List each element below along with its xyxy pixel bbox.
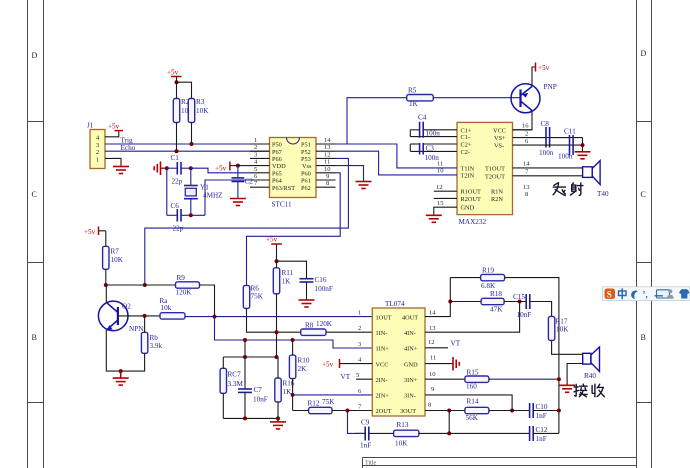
- junction Ra R9 node: [213, 315, 217, 319]
- power +5v at R11: [266, 236, 282, 268]
- svg-text:14: 14: [429, 310, 436, 317]
- wire pin14 stub up: [425, 278, 450, 317]
- resistor R5: [407, 87, 434, 109]
- wire R16 stems: [277, 357, 279, 418]
- svg-text:+5v: +5v: [84, 228, 96, 236]
- wire C12 right to bus: [533, 432, 559, 434]
- svg-text:56K: 56K: [466, 414, 479, 422]
- wire R8 to TL074 pin2: [326, 331, 372, 333]
- svg-text:13: 13: [523, 184, 530, 191]
- wire +5v down to R7: [105, 231, 107, 247]
- junction R16 bottom: [276, 416, 280, 420]
- resistor R3: [188, 98, 209, 123]
- svg-text:10: 10: [429, 371, 436, 378]
- wire pin12 stub: [425, 347, 448, 349]
- wire pin5 stub: [356, 378, 372, 380]
- svg-text:R18: R18: [490, 290, 502, 298]
- svg-text:VT: VT: [341, 373, 351, 381]
- power +5v at C2/VDD: [215, 162, 238, 173]
- svg-text:C9: C9: [361, 419, 370, 427]
- capacitor C6: [167, 202, 205, 233]
- resistor R15: [465, 369, 489, 391]
- svg-text:2: 2: [358, 325, 361, 332]
- svg-text:1: 1: [254, 137, 257, 144]
- wire Q1 emitter to +5v: [532, 67, 536, 87]
- wire T1OUT to speaker: [513, 167, 583, 169]
- svg-text:Q2: Q2: [122, 303, 131, 311]
- wire R7 bottom to collector node: [105, 269, 107, 285]
- resistor R14: [465, 398, 489, 423]
- junction tap rail: [243, 355, 247, 359]
- svg-text:C10: C10: [536, 403, 548, 411]
- junction C7 bottom: [243, 416, 247, 420]
- junction P53 net on R9 line: [143, 283, 147, 287]
- junction pin7 node: [346, 409, 350, 413]
- ground at pin11 (sideways): [453, 357, 459, 371]
- wire Trig net: [105, 143, 270, 145]
- wire R6 bottom to R8 line: [247, 308, 301, 332]
- svg-text:1K: 1K: [409, 100, 419, 108]
- R1OUT stub: [434, 190, 457, 192]
- junction R11 on R8 line: [275, 330, 279, 334]
- frame border right: [637, 0, 652, 468]
- power +5v at J1: [108, 123, 123, 131]
- ground at VS node: [575, 152, 591, 159]
- svg-text:+5v: +5v: [538, 64, 550, 72]
- wire RC7 top rail: [223, 356, 276, 358]
- STC11 left pin stubs: [250, 144, 270, 187]
- svg-text:10: 10: [324, 166, 331, 173]
- STC11 right pin numbers: [324, 137, 331, 187]
- junction emitter ground: [119, 369, 123, 373]
- svg-text:RC7: RC7: [228, 371, 242, 379]
- wire R9 right to Ra node: [200, 285, 215, 317]
- capacitor C1: [167, 154, 191, 186]
- wire pin6 line: [293, 394, 373, 396]
- junction R10 pin6: [291, 393, 295, 397]
- resistor R6: [243, 285, 263, 309]
- wire pin7 node down to C9 line: [348, 411, 366, 434]
- svg-text:R2N: R2N: [491, 196, 503, 203]
- svg-text:R15: R15: [467, 369, 479, 377]
- svg-text:P53: P53: [301, 156, 311, 163]
- svg-text:10k: 10k: [161, 304, 172, 312]
- icon keyboard: [655, 290, 670, 298]
- wire R12 right to pin7: [332, 410, 372, 412]
- wire R5 to Q1 base: [433, 97, 520, 99]
- svg-text:2IN+: 2IN+: [376, 393, 390, 400]
- svg-text:2: 2: [254, 144, 257, 151]
- text 接收: [574, 384, 604, 397]
- resistor R7: [103, 246, 124, 269]
- svg-text:+5v: +5v: [322, 361, 334, 369]
- wire pin10 to R15: [425, 378, 465, 380]
- op-amp U3 TL074: [372, 300, 425, 416]
- svg-text:P51: P51: [301, 142, 311, 149]
- wire C1-C6 left vertical: [166, 168, 168, 215]
- capacitor C3: [410, 143, 457, 162]
- junction C1 left: [165, 166, 169, 170]
- wire R3 bottom to Trig: [191, 123, 193, 145]
- wire C16 tap: [277, 261, 307, 278]
- svg-text:+5v: +5v: [108, 123, 120, 131]
- ground at Vss: [356, 182, 372, 189]
- resistor R16: [275, 378, 295, 402]
- svg-text:22p: 22p: [172, 178, 183, 186]
- junction pin8 riser: [447, 409, 451, 413]
- svg-text:’,: ’,: [643, 290, 648, 300]
- wire crystal top node to P65: [191, 168, 250, 173]
- wire R18 line left: [450, 301, 481, 303]
- svg-text:C: C: [32, 190, 37, 199]
- ground at MAX232 GND: [426, 215, 442, 222]
- svg-text:C16: C16: [315, 276, 327, 284]
- svg-text:Echo: Echo: [121, 144, 136, 152]
- junction collector node: [104, 283, 108, 287]
- resistor R8: [301, 320, 333, 335]
- svg-text:16: 16: [522, 123, 529, 130]
- wire R2 bottom to Echo: [176, 123, 178, 152]
- junction R11 on rail: [275, 355, 279, 359]
- svg-text:P52: P52: [301, 149, 311, 156]
- power +5v at R7: [84, 227, 106, 237]
- svg-text:R6: R6: [251, 285, 260, 293]
- resistor R13: [394, 421, 419, 448]
- ground at J1: [113, 167, 129, 174]
- svg-text:3IN-: 3IN-: [404, 393, 416, 400]
- resistor R12: [308, 398, 336, 414]
- capacitor C15: [513, 293, 531, 319]
- power +5v above R2 R3: [167, 69, 182, 83]
- svg-text:C12: C12: [536, 426, 548, 434]
- wire Echo net: [105, 150, 270, 152]
- IC U2 MAX232: [457, 122, 513, 226]
- svg-text:VCC: VCC: [493, 127, 506, 134]
- wire R19 line left: [450, 277, 480, 279]
- svg-text:C15: C15: [513, 293, 525, 301]
- icon moon: [629, 289, 639, 300]
- svg-text:13: 13: [324, 144, 331, 151]
- svg-text:120K: 120K: [316, 320, 333, 328]
- wire crystal bottom node to P64: [205, 180, 250, 215]
- svg-text:TL074: TL074: [385, 300, 405, 308]
- crystal Y1: [184, 168, 223, 215]
- title block: [363, 458, 637, 468]
- svg-text:11: 11: [437, 161, 443, 168]
- capacitor C8: [539, 120, 554, 157]
- svg-text:10K: 10K: [395, 440, 408, 448]
- svg-text:P60: P60: [301, 170, 311, 177]
- wire R11 bottom down to rail: [276, 294, 278, 357]
- ground below C16: [299, 300, 315, 307]
- wire pin11 stub: [425, 363, 453, 365]
- wire RC7 bottom rail: [223, 417, 278, 419]
- wire C9 right to R13: [369, 432, 394, 434]
- wire T2OUT to speaker: [513, 175, 583, 177]
- svg-text:S: S: [607, 290, 612, 300]
- R2OUT stub: [434, 197, 457, 199]
- transistor Q2 NPN: [98, 301, 128, 331]
- svg-text:C8: C8: [541, 120, 550, 128]
- svg-text:R2OUT: R2OUT: [461, 196, 481, 203]
- svg-text:R8: R8: [305, 322, 314, 330]
- svg-text:160: 160: [466, 383, 477, 391]
- capacitor C7: [238, 357, 268, 418]
- svg-text:D: D: [32, 51, 38, 60]
- resistor Ra: [160, 297, 186, 319]
- wire R10 bottom to R12: [292, 379, 294, 411]
- svg-text:4MHZ: 4MHZ: [203, 192, 223, 200]
- icon shirt: [679, 289, 690, 299]
- svg-text:C2: C2: [245, 178, 254, 186]
- svg-text:R10: R10: [298, 357, 310, 365]
- wire J1 pin4 to +5v: [105, 131, 119, 137]
- svg-text:1nF: 1nF: [360, 442, 371, 450]
- wire +5v to R3 top: [177, 82, 192, 98]
- wire J1 pin1 to ground: [105, 158, 121, 166]
- resistor R11: [273, 268, 293, 294]
- icon person: [667, 289, 674, 299]
- wire R15 right to bus: [489, 378, 559, 380]
- MCU STC11: [270, 138, 317, 209]
- svg-text:11: 11: [324, 159, 330, 166]
- wire Q1 collector to MAX232 VCC: [513, 111, 533, 130]
- svg-text:C: C: [641, 190, 646, 199]
- svg-text:12: 12: [428, 339, 435, 346]
- svg-text:R12: R12: [308, 400, 320, 408]
- svg-text:75K: 75K: [251, 293, 264, 301]
- svg-text:1: 1: [358, 310, 361, 317]
- svg-text:C11: C11: [564, 128, 576, 136]
- sogou S logo: [605, 289, 616, 300]
- svg-text:1nF: 1nF: [536, 435, 547, 443]
- svg-text:10K: 10K: [111, 256, 124, 264]
- svg-text:4OUT: 4OUT: [402, 314, 418, 321]
- svg-text:10K: 10K: [556, 326, 569, 334]
- svg-text:100n: 100n: [426, 129, 441, 137]
- svg-text:75K: 75K: [322, 398, 335, 406]
- capacitor C2: [232, 166, 254, 199]
- svg-text:T2IN: T2IN: [461, 172, 475, 179]
- wire speaker to ground: [567, 364, 583, 386]
- wire pin13 riser: [425, 302, 520, 333]
- wire GND pin to ground: [434, 207, 457, 215]
- wire Q2 base to Ra: [118, 315, 160, 317]
- svg-text:3IN+: 3IN+: [404, 377, 418, 384]
- svg-text:T40: T40: [597, 190, 609, 198]
- junction base-Rb: [143, 314, 147, 318]
- svg-text:P67: P67: [272, 149, 282, 156]
- capacitor C12: [530, 426, 548, 443]
- svg-text:B: B: [32, 333, 37, 342]
- svg-text:120K: 120K: [176, 289, 193, 297]
- wire rail tap up to pin3 line: [244, 340, 246, 357]
- svg-text:P63/RST: P63/RST: [272, 185, 295, 192]
- svg-text:R5: R5: [408, 87, 417, 95]
- svg-text:STC11: STC11: [272, 201, 293, 209]
- capacitor C10: [530, 403, 548, 420]
- wire P53 net down-left to collector node: [145, 158, 349, 285]
- svg-text:PNP: PNP: [544, 83, 557, 91]
- power +5v at Q1: [536, 63, 550, 73]
- junction pin9 C10 line: [510, 409, 514, 413]
- wire R13 right to C12: [419, 432, 529, 434]
- ground below C2: [230, 199, 246, 206]
- wire Rb top to base: [144, 316, 146, 332]
- svg-text:Title: Title: [365, 461, 376, 467]
- svg-text:P66: P66: [272, 156, 282, 163]
- speaker T40: [583, 161, 601, 185]
- svg-text:T1OUT: T1OUT: [485, 165, 505, 172]
- TL074 right pin numbers: [428, 310, 436, 409]
- STC11 right pin stubs: [316, 144, 336, 187]
- wire R12 left stem: [293, 410, 309, 412]
- svg-text:3.3M: 3.3M: [228, 380, 244, 388]
- svg-text:MAX232: MAX232: [459, 218, 487, 226]
- transistor Q1 PNP: [511, 84, 540, 113]
- wire branch down from Ra node to pin3 line: [215, 317, 373, 348]
- svg-text:1IN-: 1IN-: [376, 330, 388, 337]
- svg-text:R9: R9: [177, 274, 186, 282]
- resistor Rb: [141, 332, 162, 353]
- wire Ra right to TL074 pin1: [185, 316, 372, 318]
- svg-text:10nF: 10nF: [517, 311, 532, 319]
- svg-text:P61: P61: [301, 178, 311, 185]
- svg-text:R3: R3: [196, 98, 205, 106]
- svg-text:B: B: [641, 333, 646, 342]
- wire VS+ line: [513, 137, 583, 139]
- wire R18 right to C15: [504, 301, 526, 303]
- svg-text:12: 12: [324, 151, 331, 158]
- svg-text:1IN+: 1IN+: [376, 346, 390, 353]
- svg-text:R13: R13: [397, 421, 409, 429]
- ground at speaker R40: [559, 385, 575, 392]
- capacitor C16: [300, 276, 333, 300]
- svg-text:2: 2: [525, 130, 528, 137]
- junction crystal bottom: [189, 213, 193, 217]
- wire Q2 collector up: [105, 285, 107, 302]
- svg-text:2: 2: [96, 149, 99, 156]
- svg-text:4IN-: 4IN-: [404, 330, 416, 337]
- junction pin14 R18 line: [448, 300, 452, 304]
- ground left of C1 (sideways): [154, 162, 160, 176]
- svg-text:R19: R19: [482, 267, 494, 275]
- svg-text:R1N: R1N: [491, 189, 503, 196]
- svg-text:11: 11: [430, 355, 436, 362]
- junction tap top: [243, 338, 247, 342]
- wire Q2 emitter to ground rail: [106, 330, 144, 371]
- svg-text:10K: 10K: [196, 107, 209, 115]
- resistor R17: [548, 316, 569, 340]
- wire collector node to R9: [106, 284, 176, 286]
- svg-text:C6: C6: [171, 202, 180, 210]
- wire VDD line to chip: [238, 165, 250, 167]
- wire Vss to ground: [336, 166, 364, 181]
- junction C10 bus: [557, 409, 561, 413]
- wire VCC stub: [513, 129, 533, 131]
- MAX232 pin numbers right: [522, 123, 530, 199]
- svg-text:R7: R7: [111, 248, 120, 256]
- speaker R40: [583, 347, 600, 372]
- resistor R9: [176, 274, 200, 297]
- capacitor C11: [558, 128, 576, 161]
- connector J1: [87, 122, 105, 169]
- junction VS node: [581, 143, 585, 147]
- wire R10 top stem: [292, 340, 294, 355]
- svg-text:P50: P50: [272, 142, 282, 149]
- resistor R10: [289, 355, 309, 379]
- capacitor C9: [355, 419, 371, 450]
- svg-text:+5v: +5v: [266, 236, 278, 244]
- svg-text:VT: VT: [451, 340, 461, 348]
- wire riser pin8 to R13 line: [448, 411, 450, 434]
- svg-text:C1-: C1-: [461, 134, 470, 141]
- junction R13 riser: [447, 431, 451, 435]
- svg-text:R40: R40: [584, 372, 596, 380]
- svg-text:100n: 100n: [539, 149, 554, 157]
- svg-text:GND: GND: [404, 361, 418, 368]
- svg-text:C2-: C2-: [461, 149, 470, 156]
- TL074 left pin numbers: [356, 310, 362, 411]
- svg-text:R1OUT: R1OUT: [461, 189, 481, 196]
- svg-text:R14: R14: [467, 398, 479, 406]
- svg-text:T1IN: T1IN: [461, 165, 475, 172]
- svg-text:3: 3: [96, 142, 99, 149]
- svg-text:14: 14: [523, 161, 530, 168]
- resistor R2: [173, 98, 194, 123]
- wire VS- line: [513, 138, 583, 152]
- svg-text:NPN: NPN: [129, 325, 144, 333]
- svg-text:2OUT: 2OUT: [376, 408, 392, 415]
- svg-text:10nF: 10nF: [253, 396, 268, 404]
- wire RC7 stems: [222, 357, 224, 418]
- svg-text:Vss: Vss: [302, 163, 312, 170]
- svg-text:47K: 47K: [490, 306, 503, 314]
- svg-text:C1: C1: [171, 154, 180, 162]
- junction R15 bus: [557, 377, 561, 381]
- STC11 left pin numbers: [254, 137, 258, 187]
- svg-text:100n: 100n: [558, 153, 573, 161]
- svg-text:100nF: 100nF: [315, 285, 333, 293]
- wire R19 right to bus: [505, 278, 559, 434]
- wire R17 bottom to speaker: [552, 340, 583, 354]
- svg-text:3OUT: 3OUT: [400, 408, 416, 415]
- svg-text:+5v: +5v: [167, 69, 179, 77]
- svg-text:R17: R17: [556, 318, 568, 326]
- junction at R2 R3 top: [175, 80, 179, 84]
- wire P51 up to R5: [336, 98, 407, 144]
- junction R2 Echo: [175, 149, 179, 153]
- svg-text:GND: GND: [461, 205, 475, 212]
- icon 中: [619, 288, 627, 299]
- svg-text:4IN+: 4IN+: [404, 346, 418, 353]
- svg-text:VCC: VCC: [376, 361, 389, 368]
- svg-text:1K: 1K: [282, 278, 292, 286]
- junction R10 top on pin3 line: [291, 338, 295, 342]
- svg-text:J1: J1: [87, 122, 94, 130]
- svg-text:Rb: Rb: [150, 334, 159, 342]
- junction VDD line: [236, 164, 240, 168]
- svg-text:10: 10: [437, 168, 444, 175]
- ground below R16 rail: [270, 418, 286, 429]
- svg-text:C2+: C2+: [461, 142, 472, 149]
- wire R14 right to C10: [489, 410, 529, 412]
- svg-text:R11: R11: [282, 269, 294, 277]
- frame border left: [28, 0, 44, 468]
- ground at Q2 emitter: [113, 371, 129, 385]
- wire C10 right to bus: [533, 410, 559, 412]
- resistor R18: [481, 290, 504, 314]
